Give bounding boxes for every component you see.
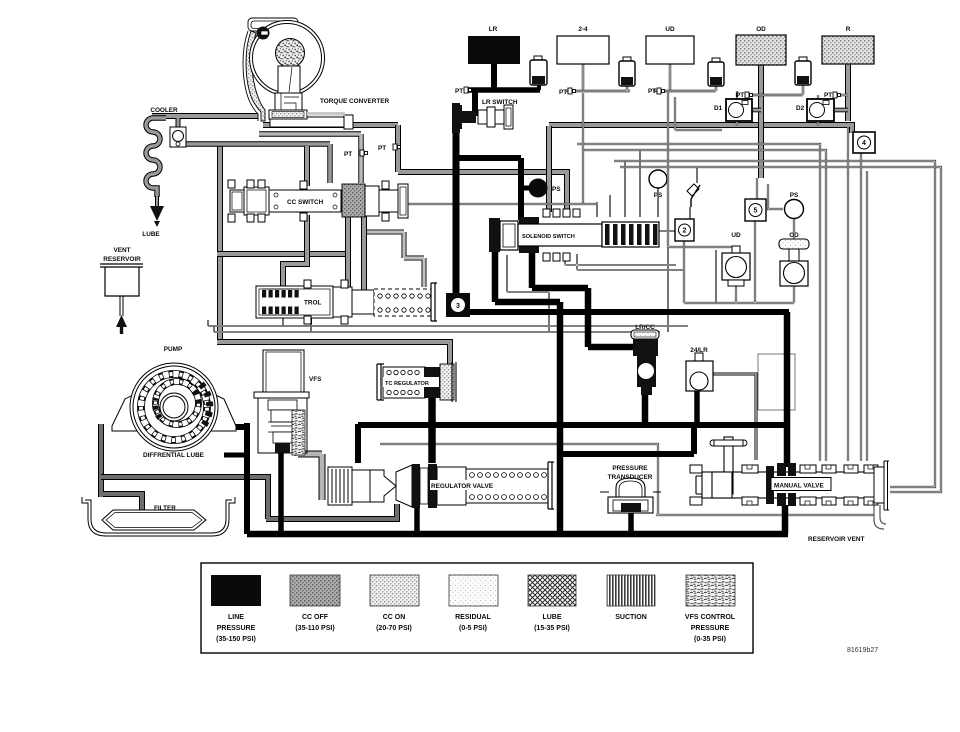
wire UD PT line bbox=[653, 85, 716, 91]
legend swatch residual bbox=[449, 575, 498, 606]
torque converter ring bbox=[250, 21, 325, 96]
wire right loop rect bbox=[758, 354, 795, 410]
wire loop bottom to TC regulator bbox=[217, 342, 450, 366]
wire D2 links bbox=[817, 95, 819, 126]
torque converter base hatch bbox=[272, 112, 304, 118]
svg-text:PS: PS bbox=[790, 192, 799, 199]
svg-text:2: 2 bbox=[683, 228, 687, 235]
wire converter line 2 bbox=[259, 134, 361, 183]
wire cooler feed top bbox=[152, 113, 258, 119]
wire accumulator 1 stem bbox=[537, 82, 541, 90]
converter outlet pipe bbox=[270, 115, 353, 129]
D2 check box bbox=[807, 99, 834, 121]
wire cc switch stem A bbox=[345, 215, 351, 290]
wire reservoir vent line bbox=[380, 444, 874, 515]
svg-text:CC SWITCH: CC SWITCH bbox=[287, 199, 324, 206]
svg-text:PT: PT bbox=[559, 89, 567, 96]
svg-text:(15-35 PSI): (15-35 PSI) bbox=[534, 625, 570, 632]
wire UD drop bbox=[669, 64, 671, 91]
svg-text:PT: PT bbox=[455, 88, 463, 95]
label regulator valve bbox=[430, 480, 500, 490]
svg-text:REGULATOR VALVE: REGULATOR VALVE bbox=[431, 483, 494, 490]
control valve TROL body bbox=[256, 286, 333, 318]
svg-text:COOLER: COOLER bbox=[150, 107, 178, 114]
LRCC valve bbox=[631, 330, 659, 395]
wire solenoid bottom loop bbox=[684, 221, 794, 303]
wire converter main line bbox=[263, 122, 398, 128]
svg-text:PT: PT bbox=[648, 88, 656, 95]
OD solenoid bbox=[779, 239, 809, 286]
accumulator 4 bbox=[795, 57, 811, 85]
svg-text:PT: PT bbox=[824, 92, 832, 99]
svg-text:DIFFRENTIAL LUBE: DIFFRENTIAL LUBE bbox=[143, 452, 205, 459]
svg-text:TROL: TROL bbox=[304, 300, 321, 307]
legend swatch lube bbox=[528, 575, 576, 606]
wire R column drop bbox=[848, 127, 867, 461]
wire transducer stem bbox=[628, 512, 634, 534]
control valve end bracket bbox=[431, 283, 437, 321]
wire pump vertical bbox=[231, 423, 247, 534]
wire suction filter to pump bbox=[101, 424, 142, 512]
legend swatch suction bbox=[607, 575, 655, 606]
accumulator 2 bbox=[619, 57, 635, 86]
svg-text:RESERVOIR: RESERVOIR bbox=[103, 256, 141, 263]
UD box bbox=[646, 36, 694, 64]
pressure transducer bbox=[600, 478, 661, 513]
wire cc switch top stem bbox=[304, 146, 310, 186]
wire vfs control to regulator bbox=[298, 412, 322, 500]
2-4 box bbox=[557, 36, 609, 64]
svg-text:VFS CONTROL: VFS CONTROL bbox=[685, 614, 736, 621]
svg-text:2-4: 2-4 bbox=[578, 26, 588, 33]
wire cooler return to cc switch bbox=[178, 144, 330, 183]
wire solenoid left down bbox=[495, 250, 560, 534]
wire solenoid bottom elbows bbox=[565, 254, 684, 270]
control valve mid lands bbox=[304, 280, 374, 324]
legend swatch cc off bbox=[290, 575, 340, 606]
vent arrow bbox=[116, 315, 127, 334]
wire R supply stem bbox=[845, 64, 851, 121]
cooler zigzag bbox=[146, 118, 166, 197]
vent reservoir bbox=[100, 264, 143, 316]
solenoid switch valve bbox=[489, 209, 659, 261]
wire y425 main bbox=[358, 422, 789, 428]
wire box3 out right bbox=[466, 309, 789, 315]
wire solenoid mid down to LRCC bbox=[532, 250, 634, 347]
svg-text:PRESSURE: PRESSURE bbox=[691, 625, 730, 632]
svg-text:TRANSDUCER: TRANSDUCER bbox=[608, 474, 653, 481]
box 4 bbox=[853, 132, 875, 153]
wire TC regulator down bbox=[428, 396, 436, 463]
CC switch hatched block bbox=[342, 184, 365, 217]
regulator valve bbox=[328, 462, 554, 509]
pump hub bbox=[160, 393, 188, 421]
OD box bbox=[736, 35, 786, 65]
svg-text:OD: OD bbox=[756, 26, 766, 33]
wire cc switch to solenoid link bbox=[408, 203, 597, 205]
label trol bbox=[302, 297, 326, 307]
wire diff lube stub bbox=[224, 453, 248, 458]
wire suction branch to regulator bbox=[101, 477, 397, 519]
wire PT to LR switch bbox=[472, 90, 478, 116]
torque converter internals bbox=[269, 66, 307, 119]
wire spool bottom loop bbox=[507, 255, 549, 332]
wire cc-on staircase bbox=[364, 232, 424, 287]
wire 2-4 drop bbox=[582, 64, 584, 91]
svg-text:FILTER: FILTER bbox=[154, 505, 176, 512]
CC switch valve bbox=[228, 180, 341, 222]
svg-text:5: 5 bbox=[754, 208, 758, 215]
wire D1 elbow feed bbox=[675, 97, 722, 130]
D1 check box bbox=[726, 99, 752, 121]
svg-text:(20-70 PSI): (20-70 PSI) bbox=[376, 625, 412, 632]
svg-text:SOLENOID SWITCH: SOLENOID SWITCH bbox=[522, 234, 575, 240]
manual valve body bbox=[690, 461, 889, 510]
wire LRCC down bbox=[642, 385, 649, 425]
PS circle A bbox=[649, 170, 667, 188]
svg-text:4: 4 bbox=[862, 140, 866, 147]
wire bottom main bbox=[247, 531, 788, 538]
svg-text:(0-35 PSI): (0-35 PSI) bbox=[694, 636, 726, 643]
svg-text:LR/CC: LR/CC bbox=[635, 324, 655, 331]
wire 24LR down bbox=[694, 391, 700, 425]
svg-text:LUBE: LUBE bbox=[542, 614, 561, 621]
cooler bypass pipe bbox=[176, 118, 181, 146]
VFS black tip bbox=[275, 443, 290, 453]
pump body bbox=[130, 363, 218, 451]
PT tick symbols bbox=[360, 87, 841, 156]
wire y172 run bbox=[398, 125, 567, 215]
svg-text:(35-110 PSI): (35-110 PSI) bbox=[295, 625, 334, 632]
VFS body bbox=[254, 350, 309, 453]
wire LR switch down main bbox=[453, 129, 460, 296]
pump inner gear bbox=[156, 382, 199, 425]
switch lever bbox=[687, 184, 700, 207]
box 3 bbox=[446, 293, 470, 317]
wire 2-4 PT line bbox=[566, 85, 630, 91]
wire long run A bbox=[577, 144, 820, 461]
wire long run B bbox=[583, 150, 826, 461]
accumulator 1 bbox=[530, 56, 547, 85]
svg-text:PRESSURE: PRESSURE bbox=[217, 625, 256, 632]
accumulator 3 bbox=[708, 58, 724, 86]
svg-text:RESERVOIR VENT: RESERVOIR VENT bbox=[808, 536, 864, 543]
filter element bbox=[102, 510, 206, 530]
wire mid horizontals bbox=[208, 326, 688, 332]
svg-text:VENT: VENT bbox=[113, 247, 130, 254]
svg-text:VFS: VFS bbox=[309, 376, 322, 383]
wire OD split to box5 bbox=[757, 178, 783, 209]
wire LR box stem bbox=[491, 63, 497, 89]
wire VFS vertical bbox=[278, 451, 284, 534]
cooler bypass ball valve bbox=[170, 127, 186, 147]
LR switch valve bbox=[452, 103, 513, 133]
wire drop to solenoid switch bbox=[546, 126, 552, 212]
svg-text:LR SWITCH: LR SWITCH bbox=[482, 99, 518, 106]
svg-text:UD: UD bbox=[665, 26, 675, 33]
pump ring gear bbox=[141, 374, 207, 440]
R box bbox=[822, 36, 874, 64]
wire regulator bottom port bbox=[414, 504, 420, 534]
svg-text:PS: PS bbox=[552, 186, 561, 193]
svg-text:D1: D1 bbox=[714, 105, 723, 112]
24LR valve bbox=[686, 353, 713, 391]
torque converter ball bbox=[276, 39, 305, 68]
legend swatch cc on bbox=[370, 575, 419, 606]
svg-text:LR: LR bbox=[489, 26, 498, 33]
wire solenoid switch top feeds bbox=[597, 150, 658, 217]
svg-text:PRESSURE: PRESSURE bbox=[612, 465, 648, 472]
wire main line east segment bbox=[549, 125, 852, 133]
svg-text:LINE: LINE bbox=[228, 614, 244, 621]
wire y454 branch bbox=[560, 428, 694, 454]
wire cc switch stem B bbox=[361, 215, 367, 290]
svg-text:(35-150 PSI): (35-150 PSI) bbox=[216, 636, 256, 643]
svg-text:SUCTION: SUCTION bbox=[615, 614, 647, 621]
wire left loop vertical bbox=[217, 143, 223, 345]
wire lever link bbox=[659, 168, 697, 231]
svg-text:UD: UD bbox=[731, 232, 741, 239]
svg-text:LUBE: LUBE bbox=[142, 231, 160, 238]
wire long run D far right bbox=[620, 167, 941, 492]
PS dot bbox=[529, 179, 548, 198]
label underline gray bbox=[307, 112, 345, 116]
svg-text:CC OFF: CC OFF bbox=[302, 614, 329, 621]
pump mount bbox=[112, 392, 141, 431]
svg-text:R: R bbox=[846, 26, 851, 33]
pump ring gear dark sector bbox=[201, 384, 210, 425]
pump inner gear dark sector bbox=[155, 398, 160, 418]
wire branch to PS bbox=[453, 158, 521, 220]
wire LR PT line bbox=[466, 87, 540, 93]
wire regulator top stub bbox=[355, 424, 361, 463]
svg-text:OD: OD bbox=[789, 232, 799, 239]
wire down to manual valve bbox=[784, 312, 791, 467]
wire OD PT line bbox=[746, 85, 803, 95]
label tc regulator bbox=[383, 377, 439, 387]
svg-text:PS: PS bbox=[654, 192, 663, 199]
VFS speckle column bbox=[292, 410, 305, 455]
box 5 bbox=[745, 199, 766, 221]
svg-text:TC REGULATOR: TC REGULATOR bbox=[385, 381, 429, 387]
svg-text:3: 3 bbox=[456, 303, 460, 310]
svg-text:D2: D2 bbox=[796, 105, 805, 112]
legend swatch line pressure bbox=[211, 575, 261, 606]
svg-text:RESIDUAL: RESIDUAL bbox=[455, 614, 492, 621]
UD solenoid bbox=[722, 246, 750, 286]
svg-text:PT: PT bbox=[344, 151, 352, 158]
legend swatch vfs bbox=[686, 575, 735, 606]
label manual valve bbox=[771, 478, 831, 491]
svg-text:PT: PT bbox=[736, 92, 744, 99]
svg-text:(0-5 PSI): (0-5 PSI) bbox=[459, 625, 487, 632]
filter pan bbox=[82, 497, 235, 536]
wire long run C far right bbox=[614, 161, 935, 487]
wire left loop branch bbox=[217, 251, 348, 257]
legend frame bbox=[201, 563, 753, 653]
torque converter clutch blob bbox=[257, 27, 270, 40]
wire box4 drop bbox=[860, 153, 862, 461]
svg-text:PUMP: PUMP bbox=[164, 346, 183, 353]
wire D1 links bbox=[736, 91, 738, 126]
control valve black dash rows bbox=[262, 289, 299, 315]
svg-text:81619b27: 81619b27 bbox=[847, 647, 878, 654]
svg-text:PT: PT bbox=[378, 145, 386, 152]
control valve spring box bbox=[374, 289, 431, 316]
box 2 bbox=[675, 219, 694, 241]
wire UD lower drop bbox=[668, 247, 716, 332]
wire OD supply stem bbox=[758, 65, 764, 178]
svg-text:CC ON: CC ON bbox=[383, 614, 406, 621]
svg-text:TORQUE CONVERTER: TORQUE CONVERTER bbox=[320, 98, 390, 105]
LR box bbox=[468, 36, 520, 64]
PS circle B bbox=[785, 200, 804, 219]
torque converter housing bbox=[243, 18, 298, 121]
svg-text:MANUAL VALVE: MANUAL VALVE bbox=[774, 483, 824, 490]
wire R PT line bbox=[834, 94, 848, 96]
wire reservoir vent pipe bbox=[874, 505, 886, 529]
wire trol bottom stubs bbox=[208, 318, 311, 332]
wire PS dot stub bbox=[524, 186, 530, 191]
wire 2-4 lower drop bbox=[582, 93, 584, 204]
wire manual valve bottom stem bbox=[782, 505, 789, 534]
wire cc switch to control valve elbow bbox=[283, 215, 307, 289]
CC switch right lands bbox=[365, 181, 408, 221]
wire UD solenoid feed bbox=[668, 91, 733, 253]
manual valve handle bbox=[710, 437, 747, 498]
svg-text:24/LR: 24/LR bbox=[690, 347, 708, 354]
lube arrow bbox=[150, 196, 164, 227]
wire 24LR gray link bbox=[709, 374, 756, 460]
TC regulator valve bbox=[377, 362, 456, 402]
wire PS to OD solenoid bbox=[793, 218, 795, 240]
